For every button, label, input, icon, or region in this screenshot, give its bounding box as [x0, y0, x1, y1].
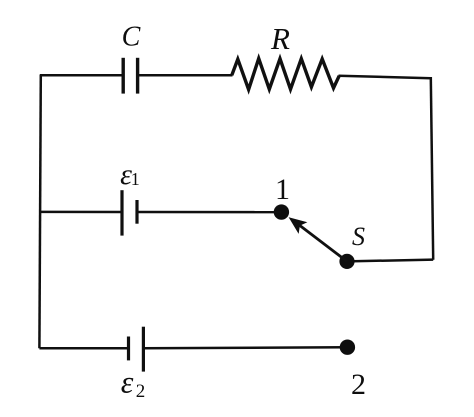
wire top right segment: [339, 76, 431, 78]
svg-text:R: R: [270, 21, 290, 56]
wire middle left segment: [40, 211, 122, 214]
svg-text:C: C: [122, 22, 141, 53]
svg-text:2: 2: [136, 381, 146, 402]
resistor R: [232, 59, 339, 90]
wire top middle segment: [138, 74, 233, 77]
wire middle right segment: [137, 211, 281, 214]
svg-text:ε: ε: [121, 364, 134, 400]
svg-text:1: 1: [275, 173, 290, 206]
label E1: [120, 158, 140, 191]
switch arrowhead: [290, 218, 307, 233]
wire top left segment: [40, 74, 123, 77]
capacitor C: [123, 58, 137, 94]
wire bottom left segment: [39, 347, 128, 350]
battery E1 long plate: [120, 190, 123, 235]
wire left vertical: [39, 75, 40, 348]
wire bottom right segment: [143, 347, 347, 348]
switch arm wire: [300, 225, 348, 261]
node 2 dot: [340, 340, 355, 355]
svg-text:1: 1: [131, 169, 140, 189]
node 1 dot: [274, 204, 289, 219]
svg-text:S: S: [352, 222, 365, 251]
svg-text:2: 2: [351, 368, 366, 401]
label E2: [121, 364, 146, 402]
battery E2 short plate: [127, 337, 130, 361]
wire right to switch: [347, 260, 433, 262]
wire right vertical: [431, 77, 433, 260]
switch S dot: [339, 254, 354, 269]
battery E2 long plate: [142, 327, 145, 372]
battery E1 short plate: [135, 200, 138, 224]
